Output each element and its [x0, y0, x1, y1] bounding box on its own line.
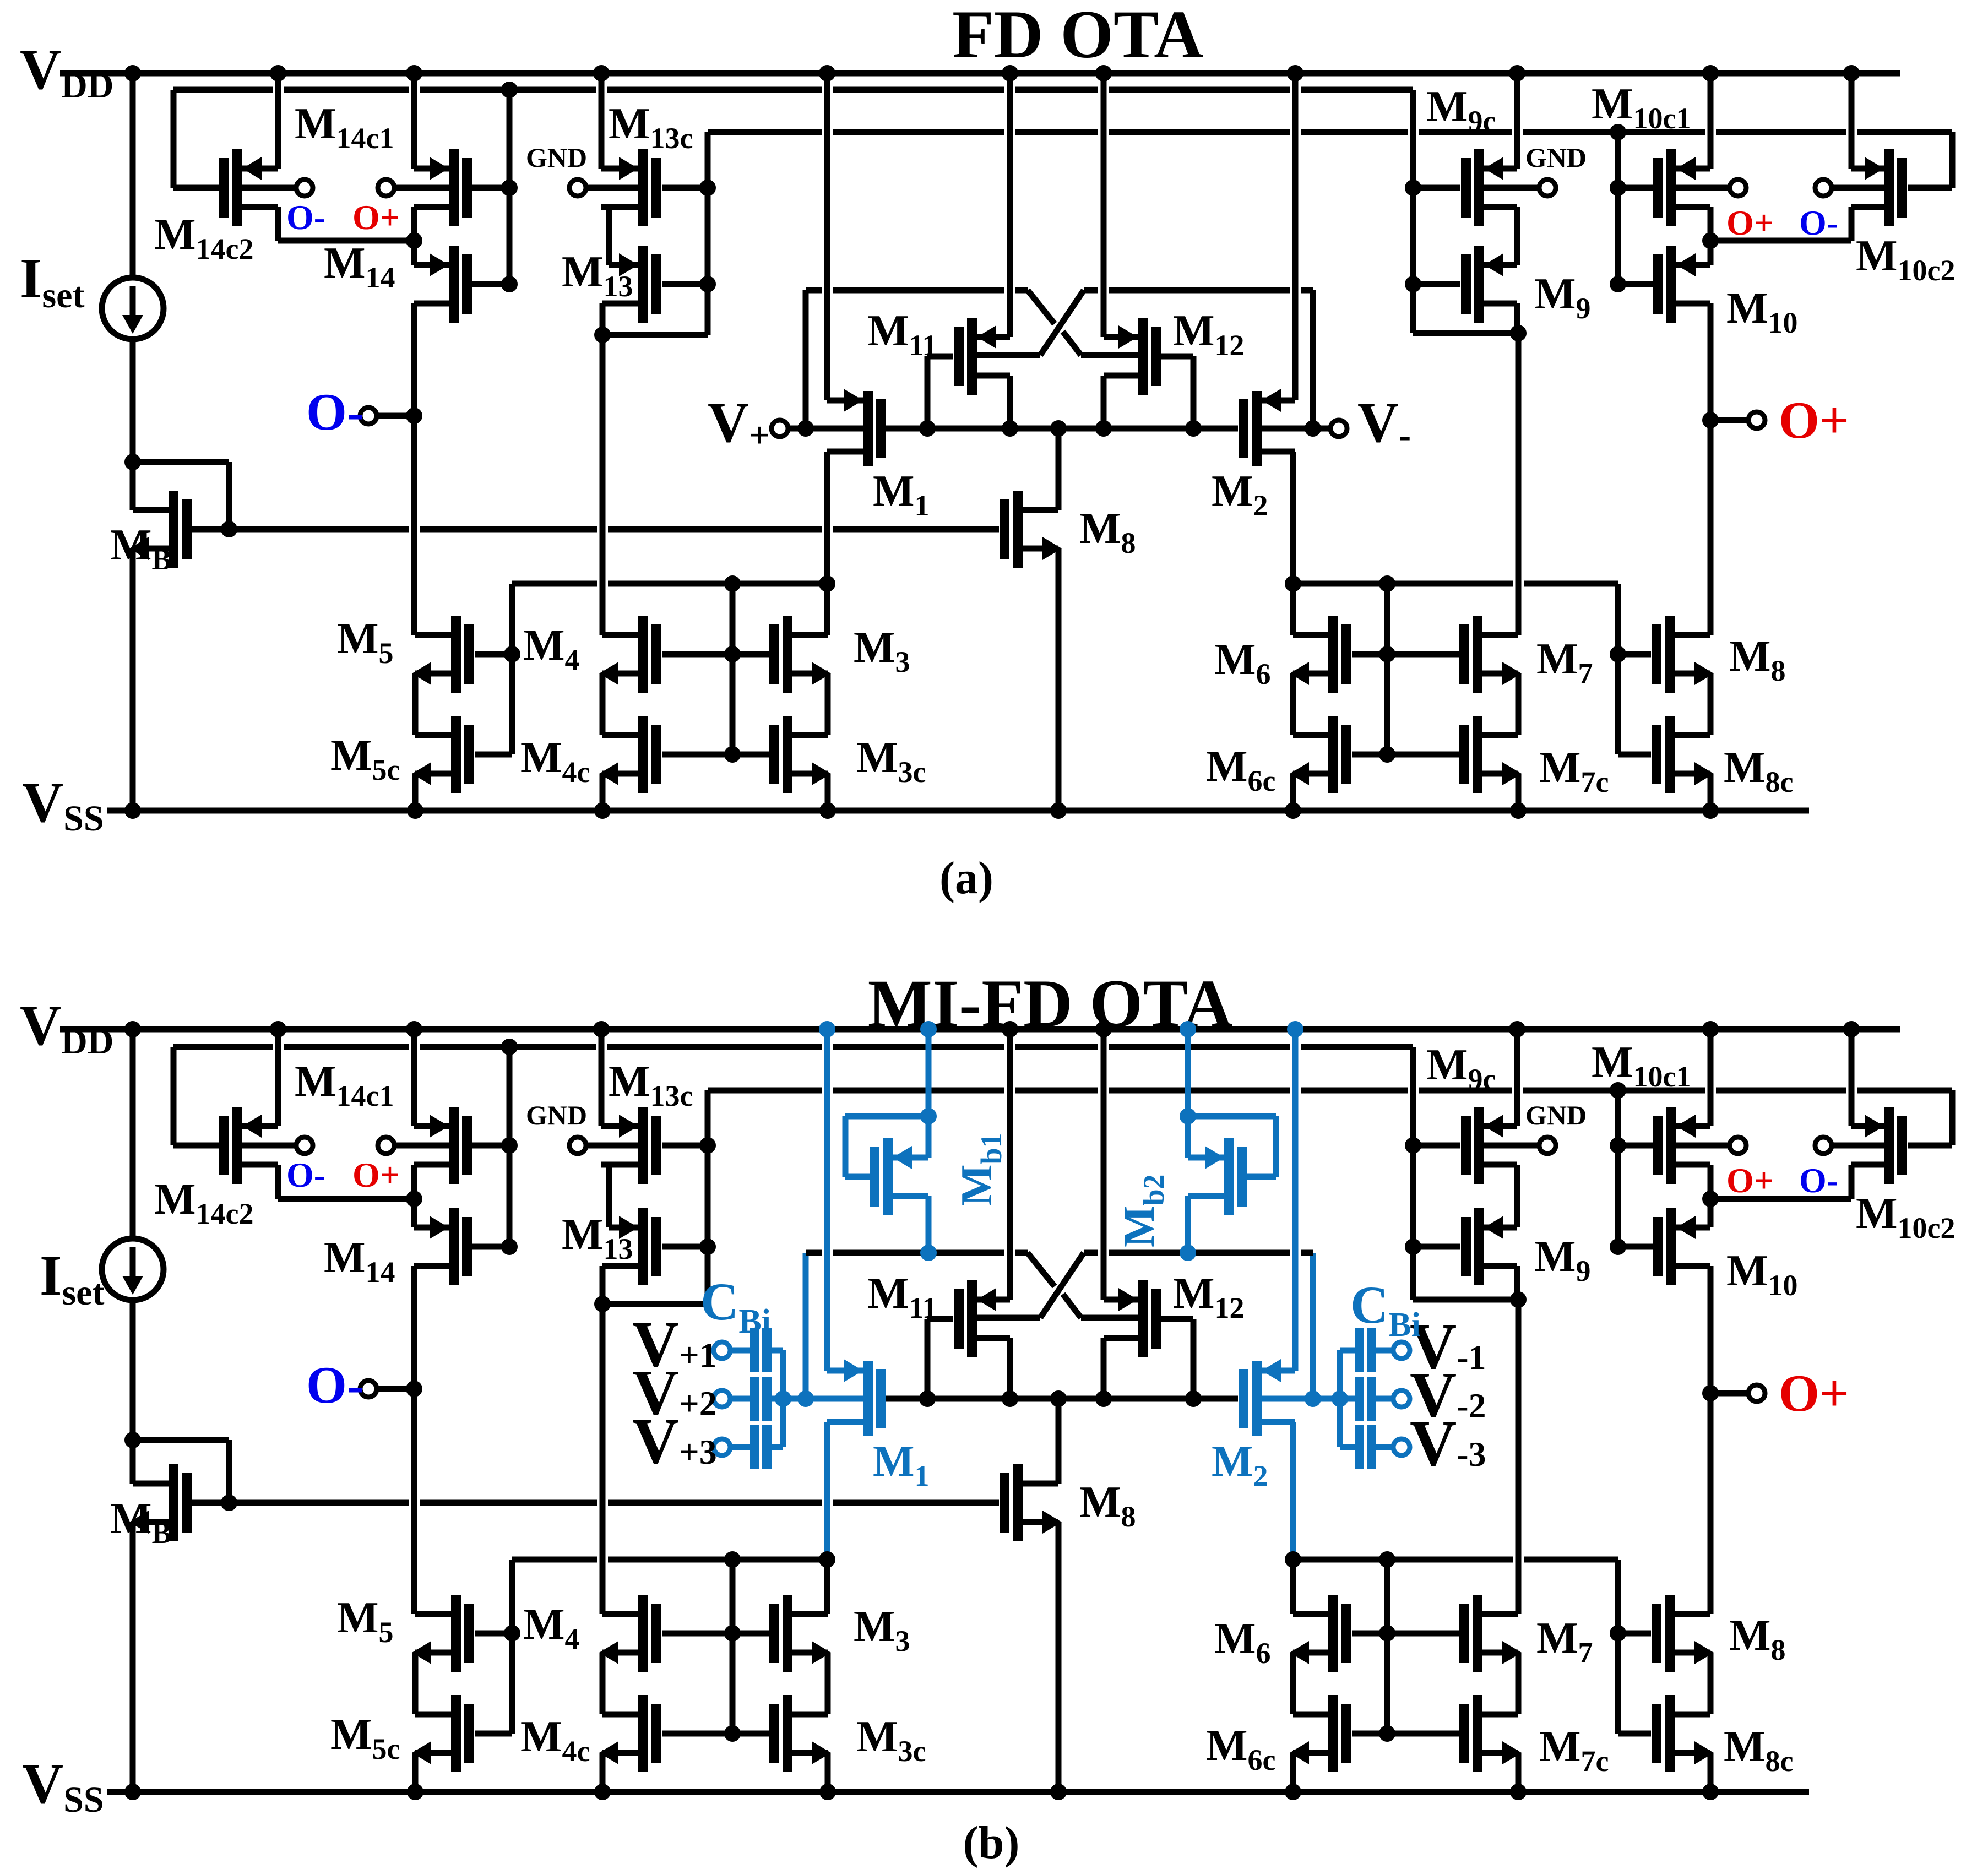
node VSS junction M6c (a) [1285, 802, 1301, 819]
wire M5 gate lead (a) [475, 651, 512, 658]
transistor M13c (a) [638, 149, 648, 226]
node M6/M7 gate cross (b) [1379, 1625, 1395, 1642]
wire M11 drain (b) [1007, 1338, 1013, 1399]
node VSS junction M6c (b) [1285, 1784, 1301, 1800]
wire M13c source to VDD (b) [599, 1029, 605, 1126]
wire O- to M5 (b) [411, 1389, 417, 1614]
transistor M11 (a) [967, 318, 977, 395]
svg-text:O-: O- [306, 383, 365, 441]
node M8r gate junction (b) [1610, 1625, 1626, 1642]
terminal O- output (a) [360, 408, 377, 424]
wire M8 drain from tail (a) [1056, 428, 1062, 510]
node gates rail M3/M4 tap (a) [724, 575, 741, 592]
node Mb2 tap (b) [1180, 1245, 1196, 1261]
node M14c1 gate junction (a) [501, 180, 518, 196]
terminal V- (a) [1330, 420, 1347, 437]
node VDD junction x=2004 (b) [1095, 1021, 1112, 1037]
wire cross diagonal A upper (a) [1028, 290, 1055, 324]
wire M12 drain (a) [1101, 376, 1107, 428]
svg-text:FD OTA: FD OTA [952, 0, 1203, 72]
wire M3c/M4c gate cross (b) [662, 1731, 769, 1737]
terminal M9c bulk GND (a) [1539, 180, 1556, 196]
wire M3-M3c link (a) [825, 673, 831, 735]
capacitor CBi right row1 (b) [1393, 1342, 1410, 1359]
node M14 drain junction (b) [406, 1191, 422, 1207]
node gates rail M3/M4 tap (b) [724, 1551, 741, 1568]
terminal M10c2 bulk O- (b) [1815, 1137, 1832, 1154]
wire M10c1 bulk (a) [1676, 185, 1730, 191]
svg-text:O-: O- [1799, 1161, 1838, 1200]
capacitor CBi left row2 (b) [714, 1390, 730, 1407]
node VDD junction x=241 (b) [124, 1021, 141, 1037]
transistor M5 (b) [451, 1595, 461, 1672]
transistor M2 (a) [1252, 391, 1262, 466]
wire M13c gate lead (b) [662, 1143, 708, 1149]
wire M9c drain to M9 (b) [1514, 1165, 1520, 1227]
wire M3/M4 gates vertical (a) [730, 584, 736, 754]
transistor M4c (b) [638, 1695, 648, 1772]
wire M9 gate lead (a) [1413, 281, 1460, 287]
wire M14c2 drain (a) [275, 207, 281, 241]
node gates rail M6/M7 tap (b) [1379, 1551, 1395, 1568]
wire M2 bulk (b) [1262, 1396, 1340, 1402]
wire M3/M4 gate cross (b) [662, 1631, 769, 1637]
wire M12 bulk line (b) [1081, 1315, 1138, 1321]
wire M11 source to VDD (a) [1007, 73, 1013, 337]
capacitor CBi right row2 (b) [1393, 1390, 1410, 1407]
node M10 gate junction (b) [1610, 1238, 1626, 1255]
terminal M13c bulk GND (b) [569, 1137, 586, 1154]
wire CBi right bus (b) [1337, 1350, 1343, 1447]
wire M4-M4c link (a) [600, 673, 606, 735]
wire M9 gates tie (a) [1413, 330, 1518, 336]
wire M9 drain (b) [1514, 1266, 1520, 1300]
node O- junction (a) [406, 408, 422, 424]
wire M12 bulk line (a) [1081, 352, 1138, 358]
transistor M1 (a) [863, 391, 873, 466]
transistor M5 (a) [451, 616, 461, 693]
node M14 drain junction (a) [406, 232, 422, 249]
svg-text:O-: O- [286, 1155, 325, 1194]
node VDD junction x=3106 (a) [1702, 65, 1719, 82]
svg-text:(a): (a) [939, 852, 993, 904]
transistor M3c (a) [783, 716, 792, 793]
node Mb1 tap (b) [920, 1245, 937, 1261]
wire O- stub (b) [377, 1386, 414, 1392]
wire M10c2 bulk (a) [1832, 185, 1884, 191]
wire M8 source to VSS (b) [1056, 1522, 1062, 1792]
wire M9 gates tie (b) [1413, 1297, 1518, 1303]
node VSS junction M4c (a) [594, 802, 611, 819]
wire M8rc source to VSS (b) [1708, 1753, 1714, 1792]
wire M10 source (b) [1708, 1199, 1714, 1227]
wire M3c/M4c gate cross (a) [662, 752, 769, 758]
wire M6/M7 gate cross (a) [1352, 651, 1459, 658]
node M9c gate junction (b) [1405, 1137, 1421, 1154]
wire right mirror gates rail (b) [1293, 1557, 1513, 1563]
node rail2 junction x=925 (a) [501, 82, 518, 98]
transistor M7 (b) [1473, 1595, 1482, 1672]
node O+ junction (a) [1702, 412, 1719, 428]
wire M5c source to VSS (a) [412, 774, 419, 811]
terminal M10c2 bulk O- (a) [1815, 180, 1832, 196]
transistor M7 (a) [1473, 616, 1482, 693]
wire O+ to M8r (b) [1708, 1393, 1714, 1614]
wire M8 source to VSS (a) [1056, 548, 1062, 811]
wire M13 drain to M4 (a) [600, 335, 606, 635]
wire M2 source to VDD (a) [1292, 73, 1299, 400]
wire M13c drain to M13 (b) [609, 1162, 638, 1168]
node VDD junction x=2004 (a) [1095, 65, 1112, 82]
wire M13 drain (b) [602, 1263, 638, 1269]
capacitor CBi left row3 (b) [714, 1439, 730, 1455]
wire M14 drain to O- (a) [411, 303, 417, 416]
wire M8r gate lead (a) [1618, 651, 1651, 658]
wire M5-M5c link (b) [412, 1653, 419, 1714]
wire M3c source to VSS (a) [825, 774, 831, 811]
transistor M6 (a) [1328, 616, 1338, 693]
wire tail rail (a) [886, 426, 1238, 432]
transistor M10 (a) [1666, 246, 1676, 323]
wire M10c2 gate loop (b) [1908, 1143, 1952, 1149]
wire M10 gates vertical (b) [1615, 1090, 1621, 1247]
node M10 drain junction (b) [1702, 1191, 1719, 1207]
wire V+ to bulk (a) [788, 426, 863, 432]
node tail junction x=1684 (b) [919, 1390, 936, 1407]
terminal O- output (b) [360, 1381, 377, 1397]
wire M14 gate vertical (a) [507, 90, 513, 284]
node M3c/M4c gate cross (b) [724, 1725, 741, 1742]
transistor M14c2 (a) [232, 149, 242, 226]
wire M10c2 drain (b) [1849, 1165, 1855, 1199]
wire M9 gates vertical (a) [1410, 90, 1416, 333]
wire M8r gate lead (b) [1618, 1631, 1651, 1637]
node M10c1 gate junction (a) [1610, 180, 1626, 196]
transistor M9c (b) [1474, 1107, 1484, 1184]
wire MB gate loop (b) [133, 1437, 229, 1443]
wire M1 drain down (b) [824, 1422, 830, 1560]
transistor M3 (a) [783, 616, 792, 693]
node VSS junction M8rc (a) [1702, 802, 1719, 819]
node M3/M4 gate cross (a) [724, 646, 741, 662]
transistor M14c1 (a) [449, 149, 459, 226]
node VDD junction x=505 (a) [270, 65, 286, 82]
node gates rail M2 drain (b) [1285, 1551, 1301, 1568]
wire M3-M3c link (b) [825, 1653, 831, 1714]
wire MB source to VSS (b) [130, 1522, 136, 1792]
wire V- to bulk (a) [1262, 426, 1330, 432]
node tail junction x=2167 (a) [1185, 420, 1202, 437]
node VSS junction MB (b) [124, 1784, 141, 1800]
terminal M10c1 bulk O+ (a) [1730, 180, 1746, 196]
wire M5c gate lead (a) [475, 752, 512, 758]
wire M1 drain to M3 (b) [824, 1560, 830, 1614]
transistor M3 (b) [783, 1595, 792, 1672]
wire M14 source (b) [411, 1199, 417, 1227]
svg-text:GND: GND [1525, 142, 1587, 173]
node bulk node M2 (b) [1305, 1390, 1321, 1407]
transistor M8 (b) [1013, 1464, 1023, 1541]
node M6c/M7c gate cross (a) [1379, 746, 1395, 763]
wire input riser right (b) [1310, 1253, 1316, 1399]
wire VDD rail (a) [60, 70, 1900, 77]
node M10 gate junction (a) [1610, 276, 1626, 292]
wire M4-M4c link (b) [600, 1653, 606, 1714]
wire M3/M4 gate cross (a) [662, 651, 769, 658]
transistor M10c2 (b) [1884, 1107, 1894, 1184]
wire M4c source to VSS (a) [600, 774, 606, 811]
wire M6c source to VSS (a) [1290, 774, 1296, 811]
node VDD junction x=1686 (b) [920, 1021, 937, 1037]
node VDD junction x=1834 (b) [1002, 1021, 1018, 1037]
wire M5-M5c link (a) [412, 673, 419, 735]
svg-text:GND: GND [526, 142, 587, 173]
terminal M14c2 bulk O- (a) [296, 180, 313, 196]
wire M9 drain to M7 (b) [1516, 1300, 1522, 1614]
wire M9c source to VDD (a) [1514, 73, 1520, 169]
transistor MB (b) [169, 1464, 178, 1541]
wire VSS rail (a) [107, 808, 1809, 814]
wire M14c1 gate lead (b) [472, 1143, 509, 1149]
wire M6c/M7c gate cross (a) [1352, 752, 1459, 758]
wire M14c1 drain (b) [411, 1165, 417, 1199]
wire M14c1 bulk (a) [394, 185, 449, 191]
wire input riser left (b) [803, 1253, 809, 1399]
node tail junction x=2004 (b) [1095, 1390, 1112, 1407]
node rail3 junction x=2938 (b) [1610, 1082, 1626, 1099]
wire M12 drain (b) [1101, 1338, 1107, 1399]
node VDD junction x=241 (a) [124, 65, 141, 82]
transistor M5c (a) [451, 716, 461, 793]
wire left mirror gates rail (b) [512, 1557, 597, 1563]
transistor M3c (b) [783, 1695, 792, 1772]
wire M14c2 gate loop (b) [173, 1143, 219, 1149]
wire M13 drain tie (a) [602, 332, 708, 338]
wire V+ cross horizontal (b) [806, 1250, 822, 1256]
wire M3/M4 gates vertical (b) [730, 1560, 736, 1734]
capacitor CBi left row1 (b) [714, 1342, 730, 1359]
wire M14c1 source to VDD (a) [411, 73, 417, 169]
transistor M8r (a) [1665, 616, 1675, 693]
node VDD junction x=2157 (b) [1180, 1021, 1196, 1037]
wire V- cross horizontal (b) [1084, 1250, 1098, 1256]
svg-text:O+: O+ [352, 198, 400, 237]
wire M8r-M8rc link (a) [1708, 673, 1714, 735]
node M9c gate junction (a) [1405, 180, 1421, 196]
wire MB source to VSS (a) [130, 548, 136, 811]
transistor M14c2 (b) [232, 1107, 242, 1184]
wire M8rc gate lead (b) [1618, 1731, 1651, 1737]
wire M14c1 source to VDD (b) [411, 1029, 417, 1126]
transistor M4 (a) [638, 616, 648, 693]
node Mb2 gate tie (b) [1180, 1108, 1196, 1124]
transistor MB (a) [169, 491, 178, 568]
wire M9c bulk (a) [1484, 185, 1539, 191]
wire M11 gate lead (a) [927, 354, 953, 360]
wire M10c2 bulk (b) [1832, 1143, 1884, 1149]
transistor M14 (a) [449, 246, 459, 323]
wire M6c/M7c gate cross (b) [1352, 1731, 1459, 1737]
node Iset/MB gate junction (a) [124, 454, 141, 470]
wire M10c1 drain (b) [1708, 1165, 1714, 1199]
node bulk node M1 (b) [797, 1390, 814, 1407]
node M5 gate junction (a) [504, 646, 520, 662]
wire cross diagonal B (a) [1040, 290, 1084, 355]
node rail3 junction x=2938 (a) [1610, 124, 1626, 140]
wire O+ stub (a) [1710, 417, 1748, 423]
wire M12 gate lead (a) [1161, 354, 1193, 360]
svg-text:O+: O+ [1726, 1161, 1774, 1200]
wire Mb1 source to VDD (b) [926, 1029, 932, 1158]
svg-text:GND: GND [526, 1100, 587, 1131]
wire M1 source to VDD (b) [824, 1029, 830, 1371]
node M10 drain junction (a) [1702, 232, 1719, 249]
node CBi left bus (b) [775, 1390, 791, 1407]
node O- junction (b) [406, 1381, 422, 1397]
transistor M4 (b) [638, 1595, 648, 1672]
wire CBi left bus (b) [780, 1350, 786, 1447]
node VDD junction x=2352 (a) [1287, 65, 1303, 82]
wire M1 drain to M3 (a) [824, 584, 830, 635]
wire M9 drain (a) [1514, 303, 1520, 333]
wire M10 gate lead (a) [1618, 281, 1653, 287]
wire M13 drain to M4 (b) [600, 1304, 606, 1614]
wire M9c drain to M9 (a) [1514, 207, 1520, 265]
node VSS junction M5c (a) [407, 802, 423, 819]
transistor M4c (a) [638, 716, 648, 793]
wire M12 gate lead (b) [1161, 1316, 1193, 1322]
wire M14c2 gate loop (a) [173, 185, 219, 191]
transistor M9 (a) [1474, 246, 1484, 323]
node O+ junction (b) [1702, 1385, 1719, 1401]
node M9 gate junction (a) [1405, 276, 1421, 292]
wire M13c bulk (a) [586, 185, 638, 191]
node VSS junction M5c (b) [407, 1784, 423, 1800]
node VDD junction x=1834 (a) [1002, 65, 1018, 82]
wire M10c1 gate lead (a) [1618, 185, 1653, 191]
wire M13 gate lead (b) [662, 1244, 708, 1250]
wire M14c2 bulk (b) [242, 1143, 296, 1149]
transistor M6c (a) [1328, 716, 1338, 793]
transistor M8rc (b) [1665, 1695, 1675, 1772]
node VSS junction M7c (a) [1510, 802, 1527, 819]
node VSS junction M8rc (b) [1702, 1784, 1719, 1800]
transistor M8rc (a) [1665, 716, 1675, 793]
node M5 gate junction (b) [504, 1625, 520, 1642]
wire left mirror gates rail (a) [512, 581, 597, 587]
wire bias rail3 (a) [708, 129, 822, 135]
wire M8 drain from tail (b) [1056, 1399, 1062, 1484]
wire M10 source (a) [1708, 241, 1714, 265]
wire M10c1 bulk (b) [1676, 1143, 1730, 1149]
svg-text:(b): (b) [963, 1817, 1020, 1868]
wire V- cross horizontal (a) [1084, 287, 1098, 294]
transistor M6 (b) [1328, 1595, 1338, 1672]
wire M14c2 drain (b) [275, 1165, 281, 1199]
transistor M13 (a) [638, 246, 648, 323]
node Iset/MB gate junction (b) [124, 1432, 141, 1448]
wire Mb1 drain (b) [926, 1196, 932, 1253]
wire M12 source to VDD (a) [1101, 73, 1107, 337]
wire M14 gate vertical (b) [507, 1047, 513, 1247]
wire M13 gate vertical (a) [705, 132, 711, 335]
wire M2 drain down (b) [1293, 1419, 1295, 1425]
transistor M12 (b) [1138, 1280, 1148, 1357]
node M13 gate junction (a) [699, 276, 716, 292]
node Mb1 gate tie (b) [920, 1108, 937, 1124]
node VSS junction M3c (b) [819, 1784, 836, 1800]
wire M1 drain down (a) [824, 452, 830, 584]
node gates rail end M1 drain (b) [819, 1551, 835, 1568]
node VDD junction x=3362 (b) [1843, 1021, 1860, 1037]
wire M6-M6c link (a) [1290, 673, 1296, 735]
node MB gate junction (a) [221, 521, 237, 537]
current source Iset (b) [102, 1238, 164, 1300]
wire M5c source to VSS (b) [412, 1753, 419, 1792]
wire M10 gates vertical (a) [1615, 132, 1621, 284]
transistor M10c1 (b) [1666, 1107, 1676, 1184]
node M13c gate junction (a) [699, 180, 716, 196]
terminal M14c1 bulk O+ (b) [378, 1137, 394, 1154]
wire M5c gate lead (b) [475, 1731, 512, 1737]
node VDD junction x=1502 (a) [819, 65, 835, 82]
node VSS junction M4c (b) [594, 1784, 611, 1800]
node M13 drain junction (a) [594, 327, 611, 343]
node tail junction x=2004 (a) [1095, 420, 1112, 437]
transistor M7c (a) [1473, 716, 1482, 793]
wire M10c1 gate lead (b) [1618, 1143, 1653, 1149]
node M6/M7 gate cross (a) [1379, 646, 1395, 662]
wire M6c source to VSS (b) [1290, 1753, 1296, 1792]
wire bias rail3 (b) [708, 1088, 822, 1094]
node VDD junction x=1502 (b) [819, 1021, 835, 1037]
wire M10c2 source to VDD (b) [1849, 1029, 1855, 1126]
transistor M2 (b) [1252, 1361, 1262, 1436]
node M10c1 gate junction (b) [1610, 1137, 1626, 1154]
node M13 drain junction (b) [594, 1296, 611, 1312]
node M3c/M4c gate cross (a) [724, 746, 741, 763]
wire M11 gate lead (b) [927, 1316, 953, 1322]
wire M14c1 gate lead (a) [472, 185, 509, 191]
wire O+ stub (b) [1710, 1390, 1748, 1397]
wire cross diagonal B (b) [1040, 1253, 1084, 1318]
wire M14c2 bulk (a) [242, 185, 296, 191]
terminal M14c1 bulk O+ (a) [378, 180, 394, 196]
terminal O+ output (b) [1748, 1385, 1765, 1401]
wire M9c source to VDD (b) [1514, 1029, 1520, 1126]
current source Iset (a) [102, 278, 164, 339]
transistor M6c (b) [1328, 1695, 1338, 1772]
wire M14c1 drain (a) [411, 207, 417, 241]
capacitor CBi right row3 (b) [1393, 1439, 1410, 1455]
wire M10c2 gate loop (a) [1908, 185, 1952, 191]
node tail junction x=2167 (b) [1185, 1390, 1202, 1407]
node VDD junction x=1092 (a) [593, 65, 610, 82]
wire M13 drain tie (b) [602, 1301, 708, 1307]
wire M14c1 bulk (b) [394, 1143, 449, 1149]
wire Mb1 gate loop (b) [845, 1174, 870, 1180]
node tail junction x=1922 (a) [1050, 420, 1067, 437]
wire O+ to M8r (a) [1708, 420, 1714, 635]
wire M9c gate lead (b) [1413, 1143, 1460, 1149]
wire VDD to Iset (b) [130, 1029, 136, 1238]
wire bias rail2 (b) [173, 1044, 273, 1050]
node tail junction x=1684 (a) [919, 420, 936, 437]
node VDD junction x=3362 (a) [1843, 65, 1860, 82]
wire M2 source to VDD (b) [1292, 1029, 1299, 1371]
wire M7c source to VSS (a) [1516, 774, 1522, 811]
wire cross diagonal A lower (b) [1063, 1294, 1081, 1318]
